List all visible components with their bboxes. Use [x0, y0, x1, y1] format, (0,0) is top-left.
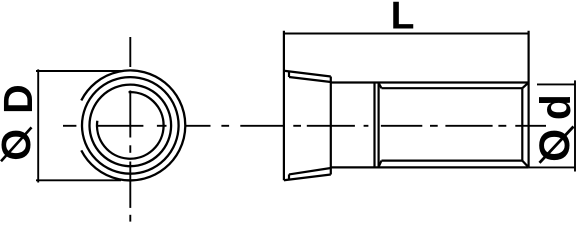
svg-text:L: L — [391, 0, 415, 37]
svg-text:D: D — [0, 84, 41, 114]
svg-text:d: d — [533, 94, 580, 120]
